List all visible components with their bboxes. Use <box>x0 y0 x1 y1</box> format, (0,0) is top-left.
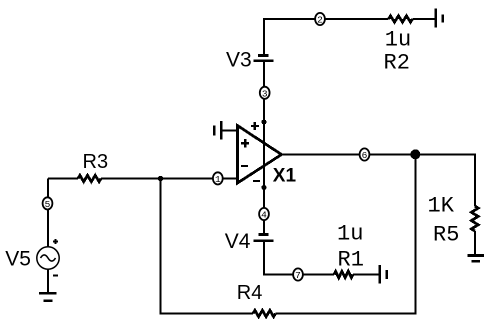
junction dot at output node <box>410 149 420 159</box>
value 1K of R5 <box>428 193 455 218</box>
resistor R2 <box>389 16 413 22</box>
node 3 digit <box>262 88 268 99</box>
svg-text:R3: R3 <box>83 151 109 173</box>
minus sign at inverting input <box>241 165 248 167</box>
plus sign at non-inverting input <box>241 139 249 147</box>
op-amp X1 triangle <box>238 126 282 183</box>
source V5 circle <box>37 247 59 269</box>
svg-text:R1: R1 <box>338 248 364 273</box>
node 7 digit <box>295 270 301 281</box>
wire node 4 to battery V4 <box>263 220 265 234</box>
node 5 <box>43 197 53 209</box>
wire top vertical from V3 to top rail <box>263 19 265 55</box>
svg-text:7: 7 <box>295 270 301 281</box>
svg-text:1u: 1u <box>337 222 363 247</box>
wire feedback left vertical <box>160 179 162 314</box>
resistor R3 <box>78 175 101 181</box>
svg-text:R4: R4 <box>237 282 263 304</box>
wire top rail left of node 2 <box>263 18 315 20</box>
node 3 <box>260 87 270 99</box>
wire battery V3 to node 3 <box>263 61 265 87</box>
label R5 <box>433 222 459 247</box>
svg-text:4: 4 <box>261 210 267 221</box>
battery V3 <box>254 56 274 61</box>
wire from R2 to capacitor <box>413 18 436 20</box>
wire node 7 to R1 <box>303 274 334 276</box>
node 1 <box>213 172 223 184</box>
svg-text:6: 6 <box>362 150 368 161</box>
plus sign at V5 <box>53 239 58 244</box>
svg-text:3: 3 <box>262 88 268 99</box>
ground below R5 <box>468 256 485 262</box>
wire node 6 to R5 branch corner <box>370 154 475 156</box>
label V5 <box>5 247 31 270</box>
value 1u of R1 branch <box>337 222 363 247</box>
node 5 digit <box>45 199 51 210</box>
wire battery V4 down and right to node 7 <box>264 241 293 275</box>
svg-text:V5: V5 <box>5 247 31 270</box>
wire bottom rail left of R4 <box>160 313 254 315</box>
wire node 5 to V5 source <box>47 210 49 247</box>
wire down to R5 <box>474 154 476 207</box>
wire bottom rail right of R4 <box>276 313 417 315</box>
wire top rail right of node 2 <box>325 18 389 20</box>
svg-text:1u: 1u <box>385 28 411 53</box>
minus sign at negative supply pin <box>253 180 260 182</box>
label V4 <box>225 230 251 253</box>
svg-text:5: 5 <box>45 199 51 210</box>
node 2 <box>315 13 325 25</box>
svg-text:1: 1 <box>215 174 221 185</box>
wire node 3 through op-amp to node 4 <box>263 99 265 208</box>
negative supply junction dot <box>261 185 266 190</box>
resistor R5 <box>471 206 478 231</box>
node 2 digit <box>317 15 323 26</box>
node 1 digit <box>215 174 221 185</box>
value 1u of R2 branch <box>385 28 411 53</box>
node 7 <box>293 268 303 280</box>
wire from R1 to capacitor <box>353 274 379 276</box>
wire R5 to ground <box>474 231 476 255</box>
label R3 <box>83 151 109 173</box>
label V3 <box>226 49 252 72</box>
wire feedback right vertical <box>415 155 417 314</box>
plus sign at positive supply pin <box>251 122 259 130</box>
wire R3 to node 1 <box>101 178 213 180</box>
node 4 <box>259 208 269 220</box>
svg-text:2: 2 <box>317 15 323 26</box>
wire op-amp output to node 6 <box>282 154 360 156</box>
stub wire at non-inverting input <box>221 130 237 132</box>
node 4 digit <box>261 210 267 221</box>
node 6 <box>360 148 370 160</box>
resistor R1 <box>334 271 353 277</box>
svg-text:X1: X1 <box>273 165 297 186</box>
capacitor terminal at non-inverting input <box>214 121 221 140</box>
svg-text:R5: R5 <box>433 222 459 247</box>
svg-text:R2: R2 <box>384 51 410 76</box>
positive supply junction dot <box>261 119 266 124</box>
svg-text:1K: 1K <box>428 193 455 218</box>
wire node 1 to op-amp inverting input <box>223 177 237 179</box>
sine symbol inside V5 <box>41 255 56 261</box>
junction dot at R3/R4 node <box>158 176 163 181</box>
ground below V5 <box>39 293 57 301</box>
node 6 digit <box>362 150 368 161</box>
battery V4 <box>254 235 274 241</box>
wire left vertical V5 branch <box>47 179 49 198</box>
label R2 <box>384 51 410 76</box>
wire input from R3 to node 1 <box>48 178 78 180</box>
label R1 <box>338 248 364 273</box>
capacitor terminal after R1 (1u) <box>380 265 387 284</box>
wire V5 to ground <box>47 269 49 293</box>
svg-text:V3: V3 <box>226 49 252 72</box>
svg-text:V4: V4 <box>225 230 251 253</box>
capacitor terminal after R2 (1u) <box>436 9 443 28</box>
label X1 <box>273 165 297 186</box>
minus sign at V5 <box>53 275 58 277</box>
label R4 <box>237 282 263 304</box>
resistor R4 <box>253 310 276 316</box>
